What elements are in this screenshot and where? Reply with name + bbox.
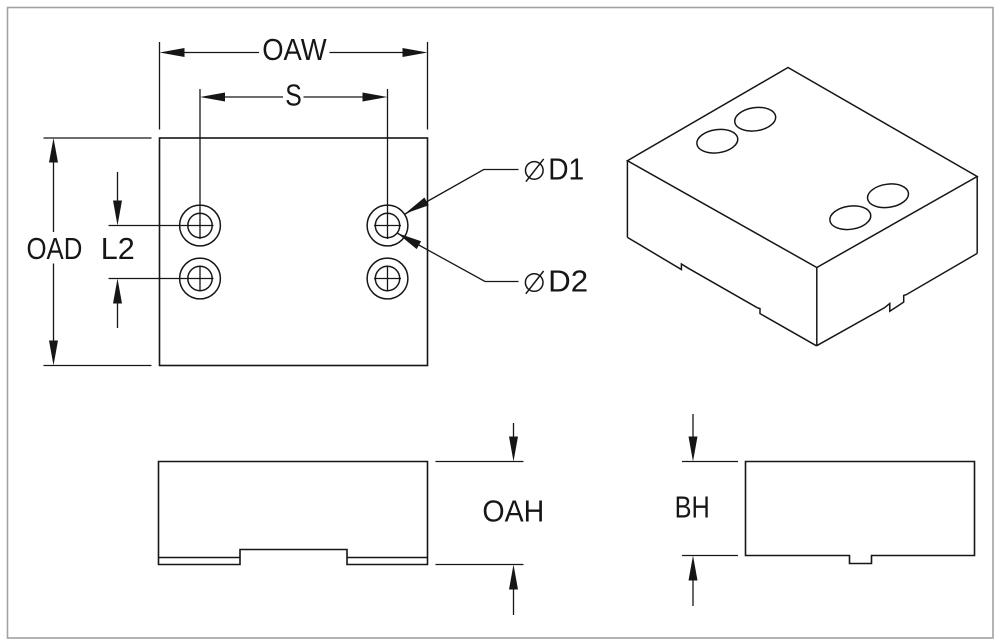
dimension OAW left arrow [160, 48, 185, 57]
leader D2 line [397, 233, 519, 282]
dimension OAH bottom arrow [513, 590, 515, 616]
iso hole ellipse front-left [828, 203, 872, 232]
dimension S line [225, 96, 363, 98]
svg-text:BH: BH [675, 489, 710, 524]
hole top-left outer circle [180, 205, 221, 246]
L2 hole row extension lines [109, 226, 187, 279]
leader D1 line [405, 170, 519, 215]
svg-text:D1: D1 [548, 151, 584, 186]
hole bottom-right inner circle [375, 266, 399, 290]
dimension OAH top arrow [513, 423, 515, 438]
dimension S extension lines into holes [200, 89, 388, 239]
hole top-left crosshair [187, 225, 214, 227]
dimension OAD line [53, 163, 55, 341]
leader D1 arrow [405, 198, 429, 214]
dimension L2 top arrow [117, 172, 119, 201]
dimension BH bottom arrow [692, 581, 694, 607]
front view foot groove line right [347, 557, 428, 559]
svg-text:S: S [285, 77, 302, 112]
hole top-right crosshair [374, 225, 401, 227]
dimension S left arrow [200, 93, 225, 102]
diameter symbol D1 [526, 162, 544, 180]
svg-text:D2: D2 [548, 263, 588, 298]
diameter symbol D2 [525, 274, 543, 292]
iso hole ellipse front-right [866, 181, 910, 210]
svg-text:OAW: OAW [262, 32, 327, 67]
dimension OAD top arrow [49, 138, 58, 163]
dimension BH top arrow [692, 414, 694, 437]
dimension OAD bottom arrow [49, 341, 58, 366]
dimension L2 bottom arrow [117, 304, 119, 329]
iso right vertical edge [976, 177, 978, 254]
hole bottom-right outer circle [367, 258, 408, 299]
hole top-left inner circle [188, 213, 212, 237]
iso hole ellipse back-left [695, 127, 739, 156]
iso bottom-right edge with tab notch [817, 253, 978, 345]
dimension OAH extension lines [436, 462, 524, 565]
svg-text:L2: L2 [101, 231, 135, 266]
iso bottom-left edge with notch and step [627, 237, 816, 345]
iso top face [627, 68, 977, 268]
iso front vertical edge [816, 268, 818, 346]
front view foot groove line left [159, 557, 241, 559]
hole bottom-left crosshair [187, 266, 214, 292]
hole top-right outer circle [367, 205, 408, 246]
leader D2 arrow [397, 233, 421, 249]
svg-text:OAH: OAH [482, 493, 544, 528]
hole bottom-right crosshair [374, 266, 401, 292]
hole bottom-left outer circle [180, 258, 221, 299]
iso hole ellipse back-right [733, 105, 777, 134]
top view body outline [160, 138, 428, 366]
dimension S right arrow [363, 93, 388, 102]
side view outline [746, 462, 975, 564]
dimension OAW extension lines [160, 42, 428, 130]
svg-text:OAD: OAD [27, 231, 83, 266]
front view outline [159, 462, 428, 565]
hole top-right inner circle [375, 213, 399, 237]
dimension OAW line [185, 52, 403, 54]
dimension OAW right arrow [403, 48, 428, 57]
hole bottom-left inner circle [188, 266, 212, 290]
dimension BH extension lines [682, 462, 738, 556]
iso left vertical edge [626, 161, 628, 238]
dimension OAD extension lines [44, 138, 152, 366]
